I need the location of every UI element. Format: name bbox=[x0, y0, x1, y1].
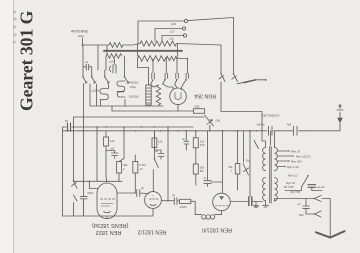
wire V4 anode right bbox=[230, 201, 248, 203]
tube RGN354 circle bbox=[170, 88, 187, 105]
electrolytic right bbox=[308, 185, 316, 188]
svg-text:µ02: µ02 bbox=[110, 60, 115, 64]
svg-text:140(250): 140(250) bbox=[128, 81, 139, 85]
switch arm blade bbox=[244, 80, 256, 83]
tube V4 circle bbox=[213, 193, 231, 211]
wire chain tap down bbox=[220, 45, 222, 73]
junction dots on buses bbox=[82, 126, 263, 131]
svg-text:µF: µF bbox=[298, 202, 301, 206]
wire row2 to coil bbox=[138, 59, 149, 86]
resistor 0.3M bbox=[117, 162, 122, 174]
wire R-c left drop bbox=[105, 56, 107, 70]
selector line 127 bbox=[155, 29, 182, 42]
electrolytic cap 50uF bbox=[249, 197, 252, 206]
svg-text:µ(250): µ(250) bbox=[92, 89, 100, 93]
antenna lead wire bbox=[82, 38, 84, 45]
wire antenna down to S1 bbox=[82, 45, 84, 76]
svg-text:(24): (24) bbox=[216, 119, 221, 123]
label RGN 354 (flipped) bbox=[194, 93, 216, 99]
band switch contact S2 bbox=[91, 76, 93, 78]
capacitor C2 bbox=[109, 59, 116, 73]
svg-text:12k: 12k bbox=[110, 139, 115, 143]
resistor zigzag R-d (second row) bbox=[138, 56, 166, 62]
svg-text:Erde: Erde bbox=[78, 34, 84, 38]
resistor 30k bbox=[193, 164, 198, 174]
svg-text:50Ω: 50Ω bbox=[195, 105, 200, 109]
svg-text:ANTENNE: ANTENNE bbox=[71, 30, 89, 34]
wire coil bottom lead bbox=[148, 105, 150, 106]
wire jack to corner bbox=[322, 199, 330, 238]
svg-text:Ren 29: Ren 29 bbox=[291, 150, 300, 154]
switch contact K2 bbox=[220, 73, 222, 75]
node rail C / column junction bbox=[83, 116, 85, 118]
winding left lower bbox=[263, 178, 266, 201]
switch tick near transformer top bbox=[255, 142, 259, 149]
grid resistor box bbox=[177, 200, 180, 202]
tap labels bbox=[283, 150, 310, 194]
earth arrow symbol right bbox=[337, 107, 343, 131]
tube internals bbox=[101, 198, 115, 200]
potentiometer right bbox=[243, 131, 249, 175]
svg-text:975: 975 bbox=[200, 143, 205, 147]
wire selector down bbox=[233, 18, 235, 73]
secondary bottom lead bbox=[275, 199, 314, 202]
node antenna junction bbox=[82, 44, 84, 46]
wire vertical left bbox=[62, 127, 64, 216]
rail B bbox=[112, 106, 194, 111]
wire heater row bbox=[285, 187, 322, 190]
wire rectifier middle feed bbox=[176, 59, 178, 74]
label REN 1822 (flipped) bbox=[92, 222, 129, 235]
capacitor feed column x153 bbox=[152, 59, 155, 79]
svg-text:150(350): 150(350) bbox=[129, 95, 140, 99]
wire antenna to chain bbox=[83, 44, 110, 46]
capacitor C1 bbox=[83, 64, 92, 76]
svg-text:GW25: GW25 bbox=[180, 206, 188, 209]
wire chain to switch column bbox=[177, 44, 221, 46]
svg-text:4µF: 4µF bbox=[287, 122, 292, 126]
svg-text:REN 1822: REN 1822 bbox=[96, 229, 122, 235]
tube internals bbox=[175, 93, 181, 100]
wire column x98 bbox=[97, 45, 99, 70]
switch chain to V3 grid bbox=[154, 131, 156, 158]
wire grid entry bbox=[89, 181, 97, 188]
svg-text:220µ: 220µ bbox=[130, 85, 136, 89]
wire pot to bus bbox=[209, 125, 211, 131]
switch contact K1 bbox=[233, 73, 235, 75]
band switch contact S3 bbox=[104, 70, 106, 76]
wire v168 bbox=[167, 127, 169, 201]
svg-text:Ren 1Ω: Ren 1Ω bbox=[288, 174, 298, 178]
wire verticals of chain bbox=[107, 44, 177, 57]
svg-text:Ren 1821/2: Ren 1821/2 bbox=[296, 155, 311, 159]
ground tick near transformer bbox=[254, 202, 259, 208]
tube V3 internals bbox=[150, 198, 158, 200]
svg-text:Rgn 52: Rgn 52 bbox=[286, 181, 295, 185]
wire rectifier left feed bbox=[165, 59, 167, 74]
capacitor left feed bbox=[165, 73, 168, 78]
trimmer hooks right pair bbox=[117, 81, 125, 97]
potentiometer (diagonal) bbox=[205, 115, 214, 126]
terminal 110 bbox=[183, 34, 186, 37]
terminal 127 bbox=[182, 27, 185, 30]
band switch contact S4 bbox=[124, 76, 126, 78]
capacitor 5000 bbox=[80, 197, 87, 216]
band switch contact S1 bbox=[82, 76, 84, 78]
wire rectifier right feed bbox=[177, 59, 187, 74]
coupling capacitor u1 bbox=[204, 131, 211, 187]
wire electrolytic feed bbox=[249, 131, 251, 197]
wire v97 bbox=[96, 127, 98, 181]
svg-text:µ1: µ1 bbox=[85, 60, 89, 64]
trimmer hooks left pair bbox=[100, 89, 109, 100]
resistor zigzag R-e2 (second row right) bbox=[166, 56, 177, 60]
label REN 1821/2 (flipped) bbox=[138, 229, 167, 235]
switch tick left feed bbox=[164, 79, 166, 81]
wire band-switch column down bbox=[83, 84, 85, 197]
resistor 12k b bbox=[154, 131, 156, 138]
resistor 0.1M bbox=[133, 162, 138, 174]
wire tube bottom bbox=[177, 105, 179, 111]
resistor 50ohm box bbox=[194, 109, 205, 114]
svg-text:Rgn 1,9A: Rgn 1,9A bbox=[287, 165, 299, 169]
left margin rule bbox=[13, 0, 15, 253]
svg-text:µF: µF bbox=[182, 138, 185, 141]
resistor zigzag vertical R-e bbox=[156, 85, 160, 106]
svg-text:µF: µF bbox=[141, 187, 144, 190]
selector line 110 bbox=[162, 36, 183, 42]
bus 2 bbox=[63, 130, 341, 132]
jack contact upper bbox=[315, 196, 322, 202]
tube V4 internals bbox=[219, 196, 224, 200]
ground tick left under transformer bbox=[263, 201, 269, 207]
label REN 1821/i (flipped) bbox=[202, 227, 232, 233]
svg-text:220: 220 bbox=[171, 22, 176, 26]
capacitor right feed bbox=[186, 73, 189, 78]
svg-text:5Ω: 5Ω bbox=[200, 169, 204, 173]
heater switch bbox=[307, 175, 309, 177]
series capacitor 4uF bbox=[294, 126, 298, 135]
svg-text:5000: 5000 bbox=[88, 192, 94, 195]
wire top h181 bbox=[74, 180, 123, 182]
terminal 220 bbox=[184, 19, 187, 22]
svg-text:500: 500 bbox=[298, 213, 303, 217]
switch arm bbox=[237, 79, 266, 84]
wire box to V4 bbox=[191, 201, 195, 214]
resistor 0.1M right bbox=[237, 131, 239, 164]
resistor zigzag R-a bbox=[109, 43, 123, 48]
winding right lower bbox=[275, 178, 278, 201]
bottom return bus bbox=[63, 208, 154, 216]
selector line 220 bbox=[138, 21, 184, 43]
coil L2 (hatched) bbox=[146, 85, 151, 105]
wire V4 grid feed bbox=[211, 131, 222, 194]
svg-text:µ50: µ50 bbox=[110, 148, 115, 151]
svg-text:Ren 29: Ren 29 bbox=[283, 185, 293, 189]
svg-text:110: 110 bbox=[169, 36, 174, 40]
capacitor middle feed bbox=[176, 73, 179, 78]
transformer core bbox=[270, 147, 272, 204]
capacitor 500 bbox=[303, 199, 313, 215]
svg-text:(RENS 1823d): (RENS 1823d) bbox=[92, 222, 129, 228]
wire hooks to rail bbox=[101, 84, 126, 106]
winding left upper bbox=[263, 148, 266, 171]
svg-text:1V: 1V bbox=[139, 167, 143, 171]
svg-text:12k: 12k bbox=[158, 140, 163, 144]
rail A bbox=[90, 84, 163, 106]
heater loops under V4 bbox=[195, 211, 221, 215]
capacitor under 12k b bbox=[155, 148, 165, 160]
switch tick right feed bbox=[185, 79, 187, 81]
jack contact lower bbox=[315, 211, 322, 217]
svg-text:4µF(B): 4µF(B) bbox=[257, 122, 265, 126]
bus 1 bbox=[63, 126, 194, 128]
wire 220 to mains switch bbox=[188, 18, 234, 21]
coupling cap V2-V3 bbox=[117, 190, 149, 197]
sprocket smudges top-left bbox=[13, 10, 17, 43]
wire mains down-right bbox=[221, 82, 262, 112]
capacitor uF small bbox=[184, 131, 189, 150]
heavy resistance bar bbox=[104, 50, 182, 52]
tone switch bbox=[73, 117, 75, 180]
wire v124 bbox=[123, 127, 125, 159]
svg-text:RGN 354: RGN 354 bbox=[194, 93, 216, 99]
wire chain link bbox=[123, 44, 140, 46]
wire V3 to u2 cap bbox=[161, 198, 177, 205]
svg-text:REN 1821/2: REN 1821/2 bbox=[138, 229, 167, 235]
resistor zigzag R-c (second row) bbox=[106, 54, 122, 59]
resistor zigzag R-b bbox=[140, 41, 176, 46]
tube REN1822 (pill) bbox=[97, 183, 117, 219]
resistor 1M right bbox=[195, 131, 197, 138]
winding taps bbox=[277, 151, 293, 167]
svg-text:REN 1821/II: REN 1821/II bbox=[202, 227, 232, 233]
rail C bbox=[74, 116, 205, 118]
svg-text:127: 127 bbox=[170, 29, 175, 33]
series capacitor on bus1 bbox=[68, 123, 71, 131]
series capacitor 4uF (B) bbox=[269, 126, 273, 135]
speaker arrow bbox=[316, 231, 345, 237]
svg-text:Gearet 301 G: Gearet 301 G bbox=[17, 10, 37, 111]
capacitor under 12k bbox=[106, 151, 118, 159]
switch tick middle feed bbox=[176, 79, 178, 81]
resistor 12k bbox=[105, 131, 107, 137]
svg-text:µF+12: µF+12 bbox=[317, 185, 325, 189]
wire primary tops bbox=[262, 131, 275, 148]
svg-text:NETZABSCH: NETZABSCH bbox=[263, 114, 280, 118]
winding right upper bbox=[275, 148, 278, 171]
wire mains to bus bbox=[261, 112, 263, 131]
tube V3 circle bbox=[145, 192, 162, 209]
svg-text:Ren 904: Ren 904 bbox=[291, 160, 302, 164]
wire tube V2 bottom bbox=[106, 216, 108, 219]
